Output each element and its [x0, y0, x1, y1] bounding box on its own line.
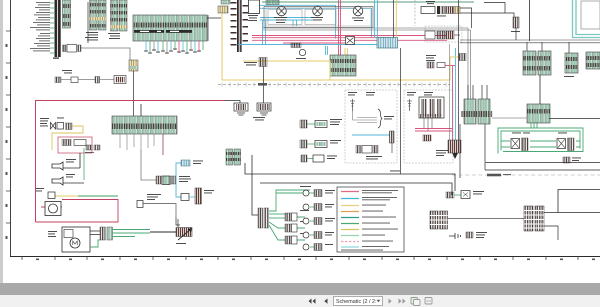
dark green top rail — [262, 1, 474, 3]
yellow feeds to bank — [345, 48, 348, 55]
fan load 2 — [285, 221, 308, 232]
row pair top — [301, 155, 337, 162]
yellow starting circuit loop — [222, 13, 459, 80]
small comps near bank — [291, 43, 306, 61]
small comp right of harness — [563, 157, 581, 163]
connector labels under pairs — [85, 32, 120, 40]
main ground bus wire lower — [260, 183, 452, 195]
link connector — [66, 123, 73, 130]
legend row 4: charge orange — [341, 211, 359, 213]
pages icon 1 — [411, 298, 418, 305]
gray monitor bundle — [263, 28, 471, 99]
wire down to ground 2 — [263, 67, 265, 104]
inner box 2 — [305, 10, 336, 25]
solenoid sub-box — [64, 230, 73, 238]
buzzer box — [181, 188, 214, 204]
wire drops below bus — [120, 134, 154, 151]
dense pin row — [112, 124, 177, 130]
horn 1 — [52, 159, 80, 170]
wires below unit — [424, 118, 432, 131]
feed wire from top — [140, 104, 142, 116]
antenna comp 2 — [407, 99, 412, 111]
redbox labels — [36, 188, 44, 191]
legend footnote — [341, 249, 383, 252]
component row F — [55, 76, 126, 84]
black feed to flasher block — [393, 0, 395, 38]
battery hot wire box outline — [36, 101, 226, 223]
engine harness dashed boundary — [218, 83, 450, 87]
wire from battery line to ground 1 — [225, 101, 240, 104]
green hatch block top — [266, 0, 279, 5]
legend row 8: ground light green — [341, 235, 359, 237]
cab feed wires right — [485, 162, 600, 164]
long vertical feed — [529, 0, 531, 41]
fuel sender row — [446, 191, 484, 199]
pink battery bundle — [252, 36, 453, 141]
glow plug relay — [274, 6, 287, 23]
long dashed boundary — [452, 174, 600, 176]
small inline connectors row 1 — [421, 1, 484, 28]
radio option labels — [426, 55, 436, 61]
fusible link bowtie — [51, 123, 56, 130]
sensor row 2 — [300, 140, 341, 148]
wire from fuse D right — [81, 48, 130, 61]
green feed wire — [83, 148, 85, 180]
fan wires — [269, 190, 310, 240]
wire bank to relay loop — [492, 117, 527, 119]
wire drop end ticks — [144, 49, 201, 53]
yellow starting wire — [48, 195, 78, 197]
flasher unit — [346, 37, 355, 45]
last-page button — [399, 299, 406, 304]
multicolor harness bundle down — [458, 0, 460, 140]
glow controller comp on yellow run — [244, 58, 267, 67]
small lower comp — [423, 135, 431, 141]
legend row 1: battery hot pink — [341, 191, 359, 193]
fan load 1 — [285, 210, 309, 221]
battery cable comp with arrow — [150, 219, 192, 244]
legend row 6: ignition green — [341, 223, 359, 225]
fusible link labels — [40, 118, 64, 127]
red wire bottom — [36, 200, 119, 223]
small switch comp — [48, 192, 55, 199]
fan load 3 — [285, 233, 309, 244]
bank link wire — [448, 218, 524, 220]
terminal strip column — [50, 0, 61, 59]
main terminal strip — [231, 0, 249, 52]
cyan feed in box — [352, 134, 390, 136]
cab connector bank pair — [461, 85, 493, 124]
wire B down — [87, 2, 89, 43]
label marks above F — [62, 70, 72, 73]
inline splice blocks below main bus — [85, 145, 100, 153]
connector block E — [129, 60, 138, 71]
pink speaker pair — [415, 129, 453, 132]
cyan hatched pair — [260, 18, 314, 21]
wire E down to central bus — [133, 71, 135, 116]
main harness connector bank — [112, 116, 177, 134]
condenser box corner — [581, 1, 600, 29]
right bank 2 — [564, 42, 578, 77]
boundary label block — [487, 174, 501, 177]
AC feed line right — [549, 118, 600, 120]
option box 2 — [404, 90, 453, 163]
brace — [378, 109, 382, 128]
frame ticks bottom — [22, 257, 578, 260]
link box — [57, 123, 64, 130]
outer relay enclosure — [264, 7, 373, 28]
radio bundle — [353, 111, 378, 123]
harness end connector — [448, 140, 461, 159]
radio assembly lower — [356, 146, 361, 154]
horizontal battery rails — [460, 40, 600, 43]
center cluster connector bank — [330, 55, 356, 76]
sender row 2 — [303, 204, 334, 211]
cassette text block — [436, 150, 448, 156]
first-page button — [309, 299, 316, 304]
cold start device cluster — [156, 176, 161, 184]
horn 2 — [52, 174, 84, 185]
sensor row 1 — [300, 119, 342, 128]
teal AC bus down/right — [573, 0, 600, 38]
legend row 10: heater light cyan — [341, 246, 359, 248]
fan top label — [300, 185, 311, 188]
inner box 1 — [268, 10, 302, 25]
gray supply wire — [143, 204, 176, 218]
lower connector bank B — [524, 206, 544, 231]
wires from bank B to edge — [544, 212, 600, 214]
ground component 2 — [253, 103, 271, 120]
legend row 3: starting yellow — [341, 205, 359, 207]
viewer left edge strip — [0, 0, 3, 295]
frame ticks left — [6, 31, 10, 223]
stepped feed wires — [484, 3, 514, 18]
connector block A — [63, 0, 71, 28]
charge wire U-run — [52, 126, 83, 150]
highlighted cyan connector — [377, 38, 398, 49]
fuse relay box top — [249, 0, 260, 14]
antenna comp — [350, 99, 355, 111]
colored wire drops below bus — [146, 41, 203, 54]
cyan key-on feed 1 — [260, 5, 336, 38]
schematic frame bottom border — [10, 256, 600, 258]
cluster labels — [179, 175, 190, 178]
cyan feeds to bank — [326, 46, 328, 55]
feed wire from above — [141, 150, 156, 180]
yellow feed to flasher block — [395, 0, 397, 38]
legend row 5: powertrain teal — [341, 217, 359, 219]
green wires right — [90, 230, 150, 248]
main ground bus wire upper — [245, 163, 455, 191]
hub connector — [258, 208, 269, 228]
sender row 1 — [303, 190, 335, 197]
legend row 7: hvac yellow — [341, 229, 359, 231]
page dropdown — [334, 297, 383, 306]
wires motor to strips — [90, 231, 100, 235]
wide fuse-panel bus — [133, 15, 207, 41]
upper mid bank — [527, 75, 550, 123]
small yellow connector top — [218, 6, 228, 13]
wall connector — [137, 201, 143, 208]
sender row 3 — [303, 218, 335, 225]
connector pair C — [111, 0, 128, 31]
cyan long run — [238, 44, 377, 46]
yellow end connector — [459, 54, 466, 61]
mid connector bank — [226, 149, 241, 165]
starter relay symbol — [352, 6, 364, 21]
option box 1 — [345, 90, 397, 163]
sender row 4 — [303, 232, 334, 239]
right bank pair 1 — [523, 42, 551, 75]
prev-page button — [324, 299, 327, 304]
battery sub-box — [58, 137, 92, 153]
svg-text:Schematic (2 / 2:: Schematic (2 / 2: — [336, 299, 376, 305]
motor symbol — [70, 238, 80, 248]
ground component 1 — [234, 103, 248, 115]
starter connector strips — [100, 227, 106, 240]
cyan feed pair down to flasher block — [375, 0, 378, 38]
radio unit bank — [419, 97, 444, 118]
sender row 5 — [303, 244, 333, 251]
relay K2 — [557, 133, 574, 151]
starter motor box — [62, 227, 90, 252]
small inline connectors row 2 with dashed surround — [425, 26, 462, 42]
dashed option feed — [414, 0, 416, 26]
pink battery verticals — [339, 0, 341, 66]
inline fuse component — [511, 17, 520, 40]
gray gap band — [0, 283, 600, 295]
relay K1 — [511, 133, 530, 151]
speaker comp — [390, 131, 395, 143]
next-page button — [389, 299, 392, 304]
connector pair B — [90, 0, 107, 30]
heater relay — [311, 6, 323, 20]
starter labels — [48, 231, 57, 237]
cyan wires — [176, 163, 181, 197]
black wire right of bus — [207, 15, 221, 41]
link to disconnect — [176, 217, 180, 225]
ground bolt row — [449, 232, 487, 239]
frame column number marks — [36, 259, 595, 261]
inline fuse box D — [63, 45, 82, 53]
ground loop wires — [498, 122, 583, 154]
schematic frame left border — [10, 0, 12, 257]
pink accessory feed — [427, 62, 455, 68]
legend row 2: key-on cyan — [341, 198, 359, 200]
cyan key-on feed 2 — [260, 8, 372, 37]
battery wire down to horns — [79, 153, 81, 168]
key switch motor — [45, 202, 61, 216]
wire label column — [30, 2, 50, 51]
frame row number marks — [6, 44, 8, 239]
feed wire — [252, 155, 258, 215]
fuse block — [181, 160, 190, 166]
legend row 9: option pink dashed — [341, 241, 359, 243]
right edge bank 3 — [586, 52, 600, 69]
toolbar background — [0, 295, 600, 307]
drop to lower connector — [459, 124, 461, 178]
lower connector bank A — [430, 211, 448, 229]
long option feed vline — [400, 48, 402, 174]
dark red drop — [162, 134, 164, 155]
pages icon 2 — [425, 298, 432, 305]
